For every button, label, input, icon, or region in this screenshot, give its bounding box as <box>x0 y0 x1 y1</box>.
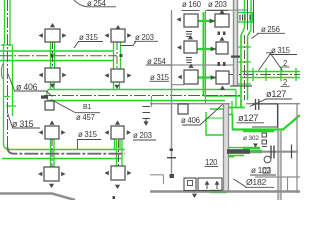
wire: right duct junction ticks <box>253 68 296 81</box>
underline ø315 topright <box>269 54 297 56</box>
damper bars <box>256 99 259 110</box>
triangle symbol right <box>259 53 283 71</box>
wire: duct2 end cap <box>47 90 48 101</box>
box2 inner arrows <box>207 182 217 189</box>
dot bottom <box>113 196 116 199</box>
wire: duct3 center line <box>8 147 126 154</box>
diffuser B4 <box>111 166 125 180</box>
wire: shaft vertical green pair <box>241 35 248 100</box>
arrows R-A2 <box>177 45 181 50</box>
arrows B2 <box>105 73 109 78</box>
svg-text:ø 315: ø 315 <box>78 130 98 139</box>
diffuser A2 <box>45 68 60 82</box>
wire: column A stubs <box>51 42 55 68</box>
wire: shaft center line <box>244 35 246 100</box>
svg-text:120: 120 <box>205 158 218 167</box>
leader ø254 top <box>74 0 116 7</box>
arrows A4 <box>38 172 42 177</box>
svg-text:ø 315: ø 315 <box>150 73 170 82</box>
wall right edge <box>296 104 298 193</box>
dark duct through wall <box>227 149 250 154</box>
wire: left wall green drop <box>226 116 228 191</box>
arrows R-A3 <box>178 75 182 80</box>
arrows R-B3 <box>211 75 216 80</box>
underline ø315 leftzone duct2 <box>150 80 170 82</box>
svg-text:ø 406: ø 406 <box>16 82 38 92</box>
symbol stack x146 <box>143 107 151 119</box>
diffuser B2 <box>111 69 124 82</box>
tick duct1 stub A <box>51 54 54 58</box>
node: green unit box mid right <box>206 109 224 135</box>
underline ø254 mid <box>146 64 171 66</box>
wire: right zone riser x204 <box>203 12 205 96</box>
flex connector bars on axis <box>271 146 274 159</box>
wall W1 vertical x171.5 <box>171 10 173 178</box>
small symbol below <box>263 168 270 173</box>
svg-text:ø 302: ø 302 <box>243 135 259 142</box>
underline 2 lower <box>281 85 290 87</box>
wall fill W8 <box>279 131 282 200</box>
svg-text:2: 2 <box>283 59 287 68</box>
wire: duct2 horizontal green edges <box>48 90 236 101</box>
wire: right duct center line <box>226 74 300 76</box>
wall W2 horizontal y65 <box>172 64 234 66</box>
wire: duct1 center line <box>0 55 117 57</box>
diffuser R-B3 <box>216 71 229 84</box>
column niche left edge <box>1 64 2 79</box>
small circles <box>262 133 267 137</box>
wire: right zone branch stubs to squares <box>197 21 216 78</box>
wire: fan room green stubs <box>243 130 274 133</box>
diffuser A1 <box>45 29 60 42</box>
diffuser A4 <box>44 167 59 181</box>
wall W8 right band <box>278 104 281 200</box>
wall W4 shaft band <box>234 0 238 86</box>
arrows B3 <box>115 121 120 125</box>
underline 2 upper <box>281 66 290 68</box>
svg-text:ø 406: ø 406 <box>181 116 200 125</box>
svg-text:ø 457: ø 457 <box>76 113 95 122</box>
wall stub y85 <box>172 84 185 86</box>
wire: column B center dashes <box>117 42 119 166</box>
diffuser A3 <box>45 126 59 139</box>
wire: fan suction green edges <box>227 148 248 157</box>
wall fill W6 <box>224 104 229 191</box>
underline ø160 <box>182 9 200 11</box>
leader ø315 left low <box>8 113 41 128</box>
mini bars below R-A1 <box>186 32 192 37</box>
node: green unit box in shaft <box>238 13 253 23</box>
wire: column B vertical duct segments <box>114 42 121 69</box>
svg-text:Ø182: Ø182 <box>246 177 266 187</box>
svg-text:ø 254: ø 254 <box>87 0 107 8</box>
svg-text:ø 254: ø 254 <box>147 57 167 66</box>
mini symbol below R-B1 <box>218 28 231 35</box>
arrows B4 <box>105 171 109 176</box>
arrows R-A1 <box>177 17 181 22</box>
box1 <box>184 178 196 191</box>
underline ø315 row3 <box>77 140 101 150</box>
svg-text:ø 102: ø 102 <box>251 166 271 175</box>
wire: shaft green crossing ticks <box>237 47 251 84</box>
svg-text:ø 315: ø 315 <box>271 46 291 55</box>
leader ø406 right zone <box>182 105 223 126</box>
arrows A1 <box>50 23 55 27</box>
arrows A3 <box>49 121 54 125</box>
arrows A2 <box>39 73 43 78</box>
wire: collector to shaft <box>204 95 241 97</box>
wire: duct2 right turn down <box>232 90 236 115</box>
diffuser B1 <box>111 29 125 42</box>
box2 <box>198 178 222 191</box>
diffuser R-A1 <box>184 14 198 27</box>
leader ø127 upper <box>250 99 292 107</box>
wire: ø127 zigzag run <box>225 100 245 130</box>
underline ø203 row3 <box>133 139 156 141</box>
svg-text:ø 160: ø 160 <box>182 0 202 9</box>
wire: column A center dashes <box>51 42 54 167</box>
leader B1 flag <box>51 100 100 113</box>
arrows R-B2 <box>211 47 216 52</box>
arrow of symbol stack <box>143 121 148 126</box>
wall W5 horizontal y103.7 <box>150 103 300 105</box>
box with damper top <box>252 104 278 127</box>
diffuser R-A3 <box>184 70 198 84</box>
wall W7 bottom thick <box>150 190 300 193</box>
underline 120 <box>205 166 219 168</box>
wire: ø127 bottom run and diagonal to fan <box>232 115 300 130</box>
wall W3 top room <box>206 10 234 104</box>
svg-text:ø127: ø127 <box>266 89 286 99</box>
small square ø406 transition <box>45 101 54 110</box>
wire: duct3 left corner <box>4 143 10 150</box>
wire: right horizontal duct pair <box>241 72 300 78</box>
wire: left vertical duct upper pair <box>5 0 11 46</box>
tick duct1 stub <box>120 54 123 57</box>
diffuser R-B1 <box>215 14 229 27</box>
svg-text:ø127: ø127 <box>238 113 258 123</box>
small square right zone <box>178 104 188 114</box>
arrows R-B1 <box>210 19 215 24</box>
box1 inner <box>188 181 193 186</box>
underline ø102 <box>250 174 276 176</box>
symbol stack arrow <box>145 119 147 122</box>
svg-text:B1: B1 <box>83 104 91 111</box>
wall stub x287.5 <box>287 177 289 192</box>
wire: duct1 horizontal green edges <box>0 51 114 61</box>
fan axis <box>240 151 298 153</box>
wall W6 band x223.5/228.5 <box>224 104 229 191</box>
leader ø203 row1 <box>121 41 159 45</box>
wire: left vertical duct lower wide pair <box>4 44 13 145</box>
leader ø315 top <box>74 42 103 49</box>
wire: left vertical center line <box>7 0 9 147</box>
mini bars below R-A2 <box>186 58 192 63</box>
svg-text:ø 203: ø 203 <box>135 33 154 42</box>
mini symbol below R-B2 <box>218 58 231 67</box>
tick marks wall W1 <box>170 149 174 152</box>
wire: junction ticks left duct <box>1 45 16 116</box>
wall fill W4 <box>234 0 238 86</box>
svg-text:ø 315: ø 315 <box>79 33 99 42</box>
tick on axis right <box>291 145 293 159</box>
leader ø127 lower <box>237 122 265 124</box>
diffuser B3 <box>111 126 124 139</box>
diffuser R-A2 <box>184 41 197 53</box>
arrows B1 <box>115 25 120 29</box>
arrow below box1 <box>192 194 197 198</box>
wire: duct2 center line <box>44 95 240 97</box>
svg-text:ø 203: ø 203 <box>208 0 227 9</box>
leader ø406 left <box>8 74 53 97</box>
wall stub left <box>150 175 164 184</box>
box2 arrowheads <box>205 181 210 185</box>
node: hatch inside green box <box>240 15 250 21</box>
leader ø182 <box>234 179 275 187</box>
diffuser R-B2 <box>216 42 228 54</box>
dark cap duct2 <box>41 96 48 99</box>
wall stub x151.5 <box>151 96 153 107</box>
svg-text:ø 315: ø 315 <box>12 119 34 129</box>
wire: duct3 horizontal green edges <box>2 150 125 159</box>
tick on shaft wall <box>231 56 240 58</box>
svg-text:2: 2 <box>283 78 287 87</box>
svg-text:ø 256: ø 256 <box>261 25 280 34</box>
underline ø203 top <box>207 9 228 11</box>
svg-text:ø 203: ø 203 <box>133 131 152 140</box>
small down arrow fitting <box>253 144 258 148</box>
leader ø256 <box>252 33 286 38</box>
circle lower <box>264 156 271 163</box>
wire: bottom green horizontal to box2 <box>183 190 227 192</box>
